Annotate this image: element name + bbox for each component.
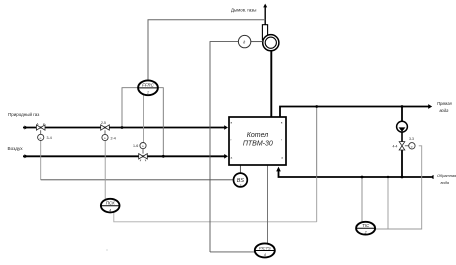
signal: gas control actuator drop to PSK [104, 141, 106, 200]
node: recirculation branch on return [401, 176, 404, 179]
svg-text:4: 4 [264, 253, 266, 257]
valve 1: gas shutoff valve [36, 123, 45, 134]
arrow: gas line inlet [24, 126, 28, 130]
air valve with actuator above [139, 149, 148, 162]
speck artifact [106, 249, 108, 251]
signal: boiler to PICTS [267, 165, 269, 243]
node: supply line tap [315, 105, 318, 108]
svg-text:2: 2 [364, 231, 367, 235]
pipe: recirculation branch upper [401, 107, 403, 122]
signal: TIC sensing from return line [361, 177, 363, 222]
boiler ПТВМ-30 [229, 117, 286, 165]
arrow: air into boiler [224, 154, 228, 159]
svg-text:1: 1 [147, 91, 149, 95]
svg-text:ПТВМ-30: ПТВМ-30 [243, 141, 273, 148]
signal: line to BS flame safety [41, 179, 234, 181]
fan: smoke exhauster with outlet duct [262, 25, 279, 51]
signal: FFRC right tap to air line [158, 88, 164, 157]
arrow: supply water outlet [428, 104, 432, 109]
arrow: return water inlet (points left) [430, 175, 434, 179]
svg-text:2-5: 2-5 [101, 121, 106, 125]
signal: line into PICTS [210, 251, 255, 253]
pipe: flue gas duct vertical to boiler [270, 51, 272, 117]
motor of smoke exhauster [251, 41, 263, 43]
instrument bubble FFRC (fuel-air ratio controller) [138, 80, 158, 95]
instrument bubble PICTS [255, 243, 275, 257]
signal: FFRC left tap to gas line [122, 88, 138, 128]
instrument bubble TIC [356, 222, 375, 235]
signal: FFRC output to air valve actuator [143, 94, 145, 143]
node: air line tap [162, 155, 165, 158]
svg-text:FFRC: FFRC [142, 83, 155, 88]
signal: draft line from FFRC up and across [148, 20, 265, 81]
svg-text:PICTS: PICTS [259, 245, 271, 250]
svg-text:Обратная: Обратная [437, 173, 456, 178]
instrument bubble PSK [101, 199, 120, 213]
pipe: natural gas line [23, 127, 225, 129]
actuator circle of valve 2 [102, 134, 108, 140]
arrow: air line inlet [24, 154, 28, 158]
svg-text:4-4: 4-4 [393, 144, 398, 148]
svg-text:г: г [231, 138, 232, 142]
svg-text:1-6: 1-6 [133, 144, 138, 148]
signal: riser from PSK line to return line [316, 177, 318, 222]
node: recirculation branch on supply [401, 105, 404, 108]
signal: return line tap to TIC output line [387, 177, 389, 229]
svg-text:вода: вода [440, 108, 450, 113]
pipe: recirculation valve-to-return [401, 150, 403, 177]
arrow: flue gas to atmosphere [263, 4, 267, 8]
node: gas line tap [121, 126, 124, 129]
pipe: recirculation pump-to-valve [401, 132, 403, 142]
pipe: air line [23, 155, 225, 157]
signal: PSK output across to water lines [114, 212, 317, 222]
svg-text:Котел: Котел [247, 132, 269, 139]
arrow: return water into boiler bottom [276, 167, 281, 172]
node: TIC tap on return line [361, 176, 364, 179]
svg-text:TIC: TIC [362, 223, 370, 228]
signal: gas shutoff actuator drop [40, 141, 42, 180]
pipe: supply water from boiler top [280, 107, 429, 118]
svg-text:ПСК: ПСК [106, 201, 115, 206]
signal: riser continues to supply line [316, 107, 318, 178]
signal: boiler to BS bubble [239, 165, 241, 173]
svg-text:Дымов. газы: Дымов. газы [231, 8, 256, 13]
valve 2: gas control valve [101, 125, 110, 135]
actuator circle of recirculation valve [409, 143, 415, 149]
svg-text:Природный газ: Природный газ [8, 111, 39, 117]
svg-text:вода: вода [441, 180, 450, 185]
signal: TIC output loop to recirculation valve actuator [375, 146, 422, 229]
actuator circle of valve 1 [38, 134, 44, 140]
recirculation valve (vertical) [399, 142, 408, 150]
pipe: return water line [279, 171, 432, 177]
svg-text:3-3: 3-3 [409, 137, 414, 141]
instrument bubble BS (flame safety) [234, 173, 248, 187]
svg-text:г: г [281, 138, 282, 142]
node: tap on return line [387, 176, 389, 178]
svg-text:4: 4 [109, 208, 111, 212]
signal: exhauster motor control from PICTS [210, 42, 238, 252]
svg-text:2-4: 2-4 [111, 137, 116, 141]
arrow: gas into boiler [224, 125, 228, 130]
svg-text:Воздух: Воздух [8, 146, 24, 151]
actuator circle of air valve [140, 143, 146, 149]
svg-text:Прямая: Прямая [437, 101, 452, 106]
pump: recirculation pump [397, 121, 408, 132]
pipe: stack vertical with arrow [264, 7, 266, 25]
svg-text:3-4: 3-4 [47, 136, 52, 140]
